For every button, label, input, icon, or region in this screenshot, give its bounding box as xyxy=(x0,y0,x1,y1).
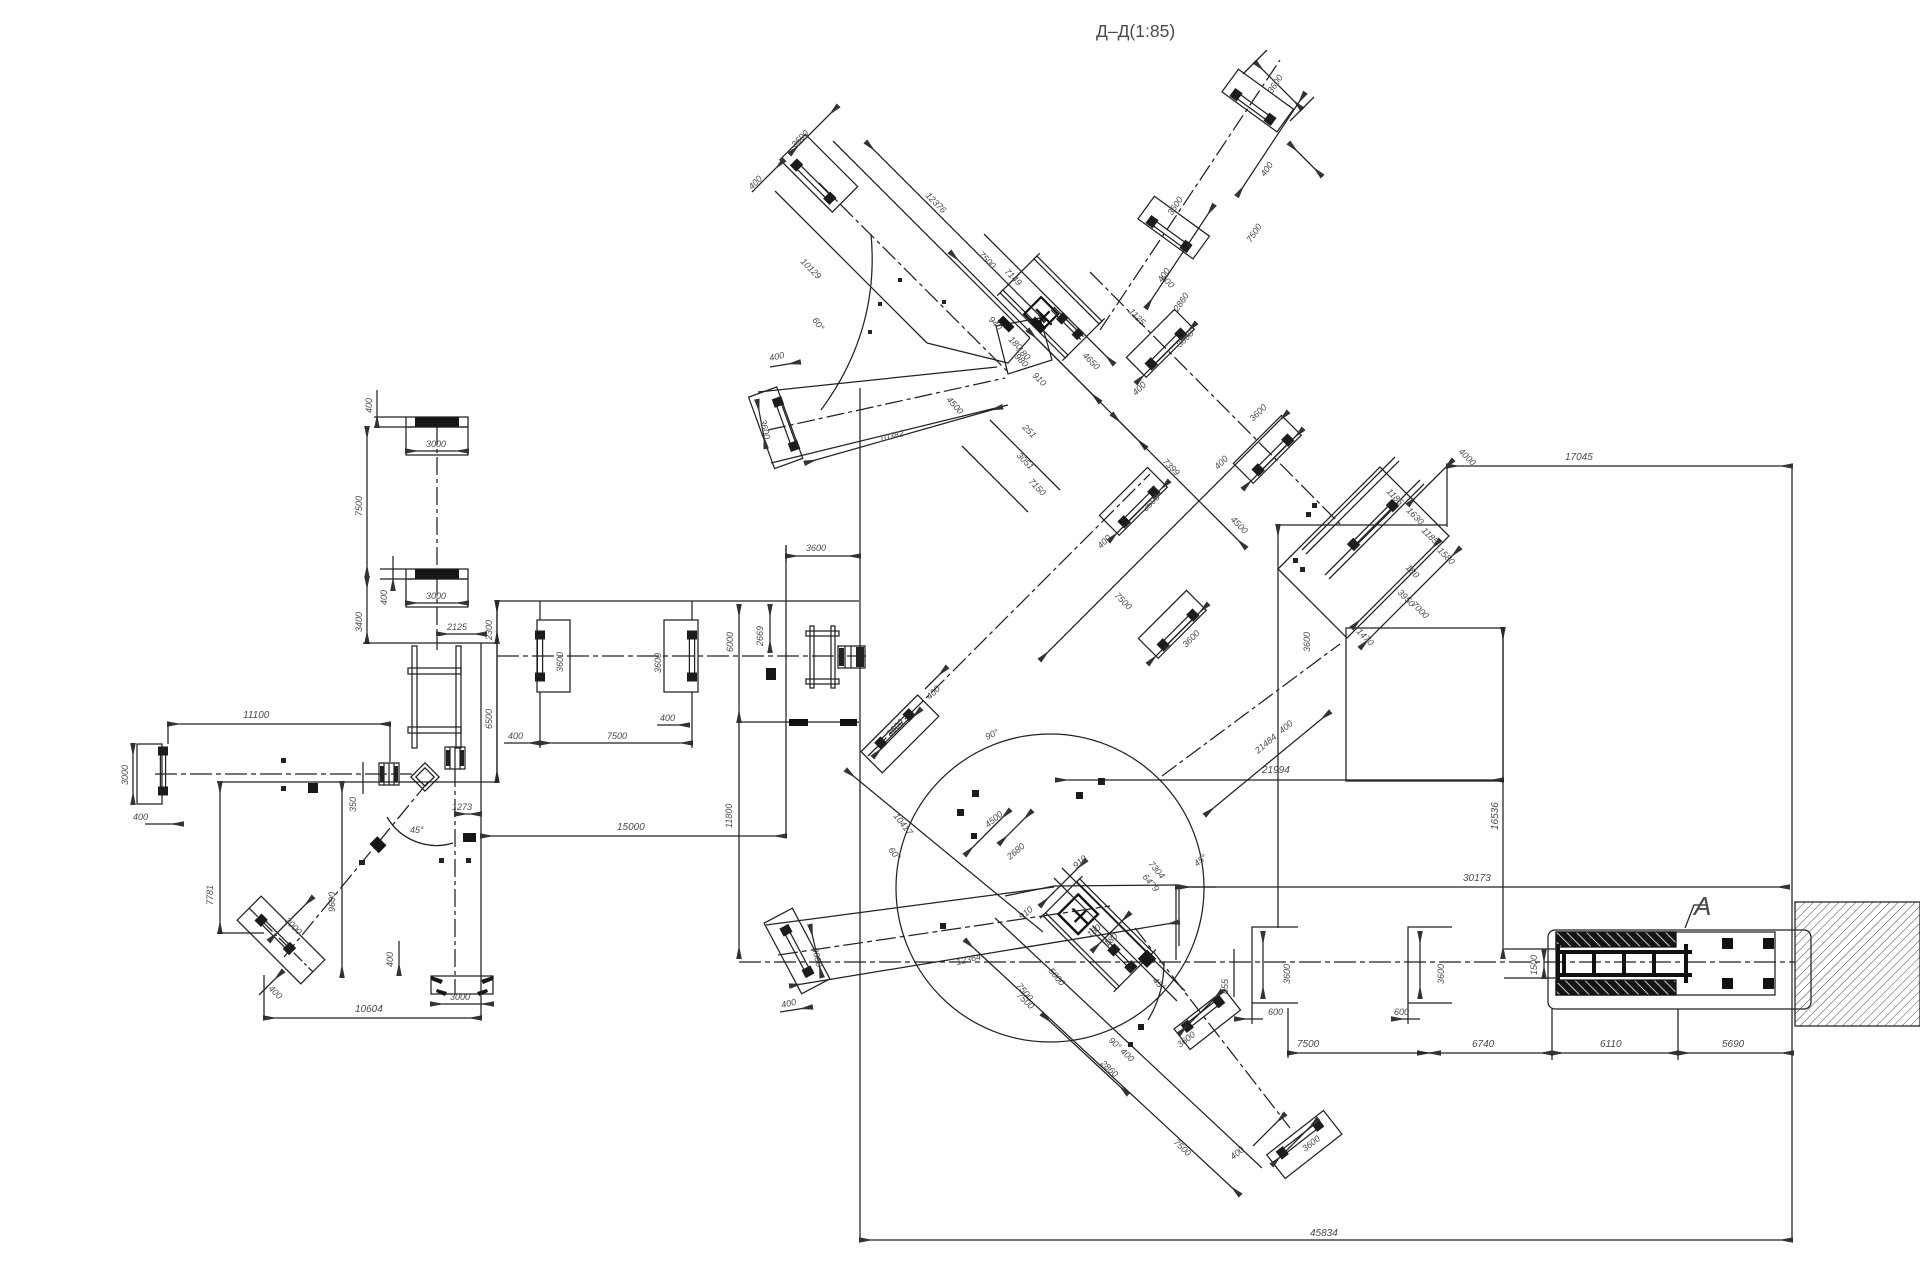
svg-text:3000: 3000 xyxy=(120,765,130,785)
svg-text:30173: 30173 xyxy=(1463,873,1491,884)
station outline corner xyxy=(1005,885,1178,896)
svg-text:3600: 3600 xyxy=(810,946,824,968)
svg-text:1500: 1500 xyxy=(1529,955,1539,975)
centerline y774 xyxy=(155,773,412,775)
C2 top tick xyxy=(691,601,693,620)
chain R2 labels xyxy=(1155,73,1284,314)
svg-text:6110: 6110 xyxy=(1600,1039,1622,1050)
dimension 400 on A4 xyxy=(259,971,284,1001)
cross dim ticks xyxy=(965,810,1130,951)
station labels xyxy=(886,727,1167,1003)
dimension 3400 vertical xyxy=(354,577,367,643)
T dim ticks xyxy=(1179,991,1318,1165)
title Д–Д(1:85) xyxy=(1096,21,1175,41)
dimension 15000 xyxy=(481,822,786,836)
svg-text:910: 910 xyxy=(1031,370,1049,388)
detail A hatched bar top xyxy=(1556,932,1676,947)
dim 10129 xyxy=(799,256,824,281)
svg-text:2680: 2680 xyxy=(1004,841,1027,862)
dimension 16536 xyxy=(1490,628,1503,958)
chain T dim line 2 xyxy=(1042,1014,1128,1094)
dim 4000 line xyxy=(1408,460,1453,505)
dim 3600 B2 xyxy=(757,400,772,448)
shelf y933 xyxy=(217,932,264,934)
svg-text:180: 180 xyxy=(1404,562,1422,580)
dimension 21994 xyxy=(1056,765,1503,780)
conveyor idler A1 top xyxy=(374,417,468,427)
chain T labels xyxy=(1015,990,1322,1161)
main horizontal centerline xyxy=(739,961,1920,963)
rect under A1 xyxy=(406,427,468,455)
band2 edge top xyxy=(758,367,997,392)
diagonal conveyor A4 xyxy=(237,896,325,984)
svg-text:10129: 10129 xyxy=(799,256,824,281)
svg-text:400: 400 xyxy=(1258,160,1275,178)
dark blob on diagonal xyxy=(370,836,387,853)
detail A pads xyxy=(1722,938,1774,989)
band1 dots xyxy=(868,278,946,334)
label 3600 C2 xyxy=(653,653,663,673)
svg-text:17045: 17045 xyxy=(1565,452,1593,463)
dark blob band xyxy=(766,668,776,680)
idler S1 45deg xyxy=(861,695,939,773)
dimension 30173 xyxy=(1176,873,1789,960)
dimension 3000 under A2 xyxy=(406,591,468,603)
svg-text:3600: 3600 xyxy=(758,418,772,440)
svg-text:3400: 3400 xyxy=(354,612,364,632)
svg-text:7500: 7500 xyxy=(354,496,364,516)
band1 edge NE xyxy=(833,141,1030,338)
centerline A1-A2 xyxy=(436,427,438,650)
unit dims Ua xyxy=(1130,323,1196,397)
svg-text:400: 400 xyxy=(385,952,395,967)
chain T centerline xyxy=(1135,928,1290,1128)
dimension 6500 rot xyxy=(484,643,497,782)
svg-text:7500: 7500 xyxy=(977,249,998,270)
unit Uc xyxy=(1099,467,1167,535)
svg-text:4000: 4000 xyxy=(1457,446,1478,467)
unit X1 xyxy=(1222,69,1293,132)
ENE chain centerline xyxy=(778,906,1110,955)
chain S dim line xyxy=(1040,412,1288,660)
end unit B2 xyxy=(749,387,804,469)
chain edge 2 xyxy=(790,922,1179,986)
station labels cluster xyxy=(977,249,1049,497)
dimension 3000 left rot xyxy=(120,744,133,804)
dimension 7781 xyxy=(205,782,220,933)
dim 7399 xyxy=(1112,414,1246,548)
band centerline xyxy=(497,655,866,657)
chain R dim line xyxy=(1205,712,1330,815)
svg-text:400: 400 xyxy=(1130,380,1148,398)
svg-text:7000: 7000 xyxy=(1410,599,1431,620)
station dark bars xyxy=(998,316,1047,334)
dimension 400 bottom rot xyxy=(385,941,399,975)
svg-text:6740: 6740 xyxy=(1472,1039,1495,1050)
band2 edge bottom xyxy=(771,405,1008,463)
chain T corridor edge2 xyxy=(995,918,1262,1168)
unit Ub xyxy=(1233,415,1301,483)
dimension 2125 xyxy=(437,622,486,634)
svg-text:4500: 4500 xyxy=(1229,514,1250,535)
svg-text:400: 400 xyxy=(660,713,675,723)
svg-text:1273: 1273 xyxy=(452,802,472,812)
dim 10382 xyxy=(805,407,1002,463)
idler T2 end xyxy=(1267,1111,1342,1179)
station dots xyxy=(1293,503,1317,572)
dimension 2300 rot xyxy=(484,601,497,643)
svg-text:7500: 7500 xyxy=(1172,1137,1193,1158)
circle (turn station) xyxy=(896,734,1204,1042)
svg-text:400: 400 xyxy=(1212,454,1230,472)
band left edge xyxy=(496,601,498,782)
dimension 7500 band xyxy=(540,692,692,748)
dim 7000 line xyxy=(1360,548,1460,648)
svg-text:45834: 45834 xyxy=(1310,1228,1338,1239)
chain D centerline xyxy=(1090,272,1340,524)
label 4650/1125/2860 xyxy=(1081,272,1177,371)
svg-text:400: 400 xyxy=(267,983,285,1001)
unit dims Uc xyxy=(1095,481,1169,612)
svg-text:400: 400 xyxy=(508,731,523,741)
dim 4650 line xyxy=(1028,330,1146,448)
dimension 5690 xyxy=(1678,1039,1793,1053)
chain S centerline xyxy=(868,474,1150,756)
svg-text:45°: 45° xyxy=(1192,852,1209,869)
station dark blob xyxy=(1138,950,1156,968)
station diamond xyxy=(1278,467,1449,638)
svg-text:400: 400 xyxy=(1095,533,1113,551)
unit dims Ub xyxy=(1212,402,1303,489)
dimension 400 left A2 xyxy=(379,556,393,605)
svg-text:3600: 3600 xyxy=(1302,632,1312,652)
svg-text:7500: 7500 xyxy=(1244,222,1263,244)
svg-text:910: 910 xyxy=(1071,853,1089,870)
dimension 3000 on A4 xyxy=(269,897,313,941)
svg-text:3600: 3600 xyxy=(1436,964,1446,984)
band1 edge SW xyxy=(775,191,927,343)
svg-text:7149: 7149 xyxy=(1003,266,1024,287)
svg-text:1125: 1125 xyxy=(1127,306,1148,327)
chain R2 centerline xyxy=(1100,60,1280,330)
svg-text:3600: 3600 xyxy=(806,543,826,553)
45deg arc at station SE xyxy=(1148,962,1168,1020)
dimension 3000 bottom xyxy=(431,992,493,1004)
dimension 7500 bottom xyxy=(1288,1008,1440,1058)
rails dim lines NE xyxy=(1054,868,1185,1001)
dimension 400 above-left A1 xyxy=(364,390,377,427)
svg-text:400: 400 xyxy=(1228,1144,1246,1161)
dark blob right xyxy=(463,833,476,842)
detail A ladder xyxy=(1558,944,1692,983)
dark blob on line y782 xyxy=(308,783,318,793)
60deg arc xyxy=(810,234,872,410)
svg-text:400: 400 xyxy=(768,350,785,363)
dim lines 3051/7150 SW xyxy=(962,420,1060,512)
drive pulley P1 xyxy=(445,747,465,769)
transfer diamond xyxy=(411,763,439,791)
vertical x786 xyxy=(785,545,787,836)
H-frame table xyxy=(408,646,461,748)
dimension 350 xyxy=(348,762,363,812)
detail A block outer xyxy=(1548,930,1811,1009)
station rect xyxy=(1346,628,1503,781)
svg-text:400: 400 xyxy=(746,174,764,192)
dimension 6740 xyxy=(1418,1009,1552,1060)
band2 centerline xyxy=(768,378,1005,430)
svg-text:21994: 21994 xyxy=(1261,765,1290,776)
chain R labels xyxy=(1192,718,1295,868)
big frame left vertical xyxy=(859,388,861,1240)
svg-text:3600: 3600 xyxy=(555,652,565,672)
svg-text:45°: 45° xyxy=(410,825,424,835)
idler T1 xyxy=(1174,990,1240,1050)
svg-text:3600: 3600 xyxy=(1165,195,1184,217)
band bottom right line xyxy=(739,721,859,723)
svg-text:7500: 7500 xyxy=(1297,1039,1320,1050)
svg-text:7500: 7500 xyxy=(1113,590,1134,611)
dim 400 ENE xyxy=(780,997,812,1012)
label A with leader xyxy=(1685,891,1711,928)
svg-text:400: 400 xyxy=(780,997,797,1010)
dimension 600 c1 xyxy=(1235,1003,1283,1024)
dimension 400 C2 xyxy=(657,713,689,725)
svg-text:10382: 10382 xyxy=(878,428,905,444)
svg-text:4650: 4650 xyxy=(1081,350,1102,371)
dimension 17045 xyxy=(1447,452,1792,527)
end idler ENE xyxy=(764,908,830,994)
svg-text:350: 350 xyxy=(348,797,358,812)
svg-text:400: 400 xyxy=(1277,718,1295,735)
corner bracket x1179 xyxy=(1179,885,1216,946)
label 3600 C1 xyxy=(555,652,565,672)
svg-text:2300: 2300 xyxy=(484,620,494,641)
svg-text:90° 400: 90° 400 xyxy=(1107,1035,1137,1064)
dimension 2669 rot xyxy=(755,605,770,652)
dimension 7500 vertical xyxy=(354,427,367,577)
svg-text:Д–Д(1:85): Д–Д(1:85) xyxy=(1096,21,1175,41)
dim 400 B2 xyxy=(768,350,800,367)
svg-text:4500: 4500 xyxy=(945,395,966,417)
dimension 6110 xyxy=(1552,1009,1678,1060)
svg-text:5690: 5690 xyxy=(1722,1039,1745,1050)
label 3600 left xyxy=(1302,632,1312,652)
svg-text:400: 400 xyxy=(379,590,389,605)
svg-text:3600: 3600 xyxy=(653,653,663,673)
dim lines 7149/7500 xyxy=(950,234,1114,402)
dimension 400 below A3 xyxy=(133,812,183,824)
dimension 400 band xyxy=(504,692,540,748)
C-frame 1 xyxy=(1252,927,1298,1003)
chain T dim line long xyxy=(965,940,1240,1195)
dimension 6000 rot xyxy=(725,605,739,722)
svg-text:1185: 1185 xyxy=(1420,525,1441,546)
band1 centerline xyxy=(819,183,1008,372)
svg-text:7150: 7150 xyxy=(1027,476,1048,497)
line y782 xyxy=(217,781,497,783)
dim 3600 S1 xyxy=(873,709,921,757)
svg-text:21484: 21484 xyxy=(1252,732,1278,756)
label 45deg xyxy=(410,825,424,835)
conveyor A3 left xyxy=(137,744,168,804)
conveyor idler C1 xyxy=(535,601,570,692)
station inner belt xyxy=(1347,499,1399,551)
dim 3600 Q1 xyxy=(789,106,838,154)
centerline x455 xyxy=(454,769,456,994)
dim 12376 xyxy=(866,142,1045,321)
rect under A2 xyxy=(406,579,468,607)
svg-text:60°: 60° xyxy=(810,315,826,332)
svg-text:400: 400 xyxy=(364,398,374,413)
chain R2 dim lines xyxy=(1146,93,1305,308)
dimension 11100 xyxy=(168,710,390,762)
chute quad xyxy=(996,318,1052,374)
dimension 10604 xyxy=(264,975,481,1018)
dimension 1500 xyxy=(1529,950,1544,978)
dimension 3000 under A1 xyxy=(406,439,468,451)
svg-text:3000: 3000 xyxy=(426,591,446,601)
svg-text:10604: 10604 xyxy=(355,1004,383,1015)
chain edge 1 xyxy=(766,887,1054,925)
detail A inner machine outline xyxy=(1556,932,1775,995)
svg-text:3600: 3600 xyxy=(1180,628,1201,649)
svg-text:600: 600 xyxy=(1268,1007,1283,1017)
svg-text:3600: 3600 xyxy=(1265,73,1284,95)
station rails xyxy=(1302,457,1424,579)
svg-text:3051: 3051 xyxy=(1015,450,1036,471)
end unit Q1 xyxy=(780,134,858,212)
dimension 9600 xyxy=(327,782,342,977)
svg-text:12364: 12364 xyxy=(955,952,982,967)
station H-frame xyxy=(997,253,1104,360)
svg-text:3000: 3000 xyxy=(426,439,446,449)
hatched wall block right xyxy=(1795,902,1920,1026)
top corner bracket xyxy=(1243,50,1322,176)
station H-frame rotated xyxy=(1040,876,1156,992)
svg-text:6500: 6500 xyxy=(484,709,494,729)
svg-text:16536: 16536 xyxy=(1490,802,1501,830)
dimension 600 c2 xyxy=(1392,1003,1420,1024)
svg-text:251: 251 xyxy=(1020,422,1038,440)
conveyor idler A2 xyxy=(380,569,468,579)
label 4500 band2 xyxy=(945,395,966,417)
svg-text:7781: 7781 xyxy=(205,885,215,905)
svg-text:11100: 11100 xyxy=(243,710,270,721)
svg-text:60°: 60° xyxy=(886,845,903,862)
head pulley P2 xyxy=(379,763,399,785)
line y643 xyxy=(363,642,497,644)
svg-text:3600: 3600 xyxy=(1300,1133,1322,1153)
diagonal centerline 45 xyxy=(284,782,428,957)
dim 3950 line xyxy=(1352,540,1440,628)
feet dark xyxy=(789,719,857,726)
svg-text:11800: 11800 xyxy=(724,804,734,828)
funnel vertex xyxy=(927,338,1030,363)
band top line xyxy=(497,600,859,602)
chain R centerline xyxy=(1162,644,1340,776)
svg-text:7399: 7399 xyxy=(1161,456,1182,477)
svg-text:600: 600 xyxy=(1394,1007,1409,1017)
corner y525 bracket xyxy=(1278,525,1447,928)
svg-text:3600: 3600 xyxy=(1247,402,1268,423)
svg-text:3600: 3600 xyxy=(1282,964,1292,984)
vertical x481 xyxy=(480,643,482,1018)
svg-text:3000: 3000 xyxy=(283,915,304,936)
unit Ud xyxy=(1138,590,1206,658)
svg-text:2669: 2669 xyxy=(755,626,765,647)
svg-text:400: 400 xyxy=(133,812,148,822)
svg-text:2125: 2125 xyxy=(446,622,468,632)
bottom conveyor 3000 xyxy=(431,976,493,996)
dimension 11800 rot xyxy=(724,722,739,958)
detail A hatched bar bottom xyxy=(1556,980,1676,995)
belt guide lines left xyxy=(1504,949,1558,978)
station dim labels xyxy=(1355,446,1478,647)
svg-text:7500: 7500 xyxy=(607,731,627,741)
svg-text:A: A xyxy=(1692,891,1711,921)
unit X2 xyxy=(1138,196,1209,259)
small dots xyxy=(281,758,471,865)
svg-text:3000: 3000 xyxy=(450,992,470,1002)
svg-text:1630: 1630 xyxy=(1405,505,1426,526)
C-frame 2 xyxy=(1408,927,1452,1003)
svg-text:15000: 15000 xyxy=(617,822,645,833)
unit Ua xyxy=(1126,309,1194,377)
dimension 855 xyxy=(1220,949,1234,997)
svg-text:1470: 1470 xyxy=(1355,626,1376,647)
drive station D1 H-frame xyxy=(806,626,839,688)
svg-text:1580: 1580 xyxy=(1436,545,1457,566)
10417 dim line xyxy=(846,770,1043,932)
svg-text:6000: 6000 xyxy=(725,632,735,652)
big frame right vertical xyxy=(1791,466,1793,1240)
dim 400 Q1 xyxy=(746,160,784,192)
dimension 45834 bottom xyxy=(860,1228,1792,1240)
dim 3600 ENE xyxy=(810,925,824,977)
svg-text:3600: 3600 xyxy=(789,128,810,149)
drive station D1 motor xyxy=(838,646,865,668)
45deg arc xyxy=(387,817,453,845)
svg-text:90°: 90° xyxy=(984,727,1001,742)
unit dims Ud xyxy=(1148,604,1208,664)
dimension 1273 xyxy=(452,802,481,814)
dimension 3600 band right xyxy=(786,543,860,562)
scatter dots circle xyxy=(940,778,1144,1047)
dim 4500 D xyxy=(1229,514,1250,535)
conveyor idler C2 xyxy=(664,620,698,692)
dim 400 S1 xyxy=(924,667,947,701)
